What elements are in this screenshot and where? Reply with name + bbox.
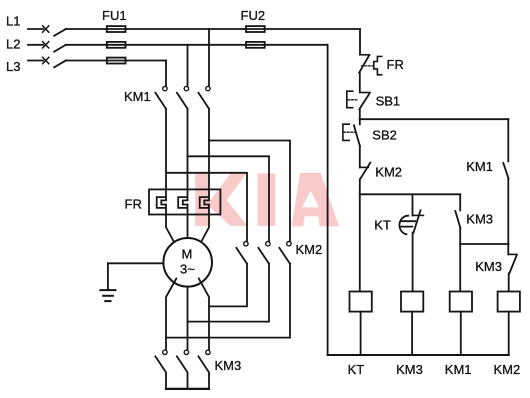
wire SB2 to KM2 contact xyxy=(359,146,361,167)
wire node to KT coil xyxy=(359,194,361,291)
fuse FU2 pole 1 xyxy=(246,26,265,32)
wire KM2 coil to bus xyxy=(508,312,510,355)
wire KM3 NO to KM2 coil xyxy=(508,273,510,291)
switch QS pole L2 cross xyxy=(43,42,49,48)
contactor KM1 pole2 terminal xyxy=(184,86,188,90)
wire delta bottom V2 to KM2 poleB xyxy=(188,264,270,322)
timer contact KT blade xyxy=(414,210,421,232)
timer contact KT terminal jog xyxy=(413,214,424,216)
pushbutton SB1 cap xyxy=(347,91,353,108)
fuse FU1 pole 1 xyxy=(107,26,126,32)
svg-text:KM2: KM2 xyxy=(296,242,323,257)
contactor KM3 pole2 terminal xyxy=(184,350,188,354)
aux contact KM1 (NO) blade xyxy=(503,163,508,178)
watermark KIA xyxy=(195,173,339,227)
motor M 3~ xyxy=(163,238,212,287)
svg-text:KM3: KM3 xyxy=(215,358,242,373)
switch QS pole L2 blade xyxy=(54,45,66,52)
svg-text:KM3: KM3 xyxy=(396,362,423,377)
wire KM1 pole3 to FR xyxy=(208,109,210,190)
coil KM2 xyxy=(498,292,520,312)
contactor KM3 pole3 terminal xyxy=(206,350,210,354)
svg-text:M: M xyxy=(182,247,193,262)
wire L1 bus xyxy=(66,28,360,30)
fuse FU1 pole 2 xyxy=(107,42,126,48)
svg-text:KM3: KM3 xyxy=(466,212,493,227)
pushbutton SB1 (NC) blade xyxy=(359,93,370,109)
wire L3 stub xyxy=(28,60,43,62)
contactor KM1 pole3 blade xyxy=(198,93,209,109)
thermal relay FR heater 2 xyxy=(178,189,187,214)
wire motor W2 lead xyxy=(199,279,209,351)
switch QS pole L3 cross xyxy=(43,57,49,63)
relay contact FR dashed link xyxy=(362,65,374,67)
wire FR to SB1 xyxy=(359,72,361,92)
svg-text:L2: L2 xyxy=(6,36,20,51)
wire link to KM3 NO contact xyxy=(507,244,509,254)
aux contact KM3 (NO) blade xyxy=(509,255,516,273)
coil KT xyxy=(350,292,372,312)
fuse FU2 pole 2 xyxy=(246,42,265,48)
svg-text:KT: KT xyxy=(348,362,365,377)
aux contact KM2 (NO) terminal jog xyxy=(360,166,369,168)
timer contact KT arc bar xyxy=(401,221,415,226)
relay contact FR (NC) top bar xyxy=(360,54,370,56)
wire FR to motor U1 xyxy=(166,215,176,247)
contactor KM3 pole3 blade xyxy=(198,356,209,388)
wire control hot drop xyxy=(359,29,361,54)
pushbutton SB2 cap xyxy=(343,124,349,140)
contactor KM2 poleC blade xyxy=(279,248,290,264)
switch QS pole L1 blade xyxy=(54,29,66,36)
svg-text:KM2: KM2 xyxy=(375,165,402,180)
svg-text:L1: L1 xyxy=(6,14,20,29)
svg-text:SB2: SB2 xyxy=(372,128,397,143)
contactor KM2 poleB blade xyxy=(258,248,269,264)
fuse FU1 pole 3 xyxy=(107,58,126,64)
wire cross link xyxy=(460,243,508,245)
svg-text:FU1: FU1 xyxy=(102,8,127,23)
ground bar 3 xyxy=(105,300,110,302)
coil KM3 xyxy=(401,292,423,312)
wire L2 drop to KM1 pole2 xyxy=(187,45,189,87)
svg-text:L3: L3 xyxy=(6,59,20,74)
wire node to KM3 NC contact xyxy=(459,194,461,210)
svg-text:3~: 3~ xyxy=(180,262,195,277)
coil KM1 xyxy=(450,292,472,312)
contactor KM2 poleC terminal xyxy=(287,242,291,246)
wire L3 drop to KM1 pole1 xyxy=(165,61,167,87)
wire bottom bus xyxy=(328,354,509,356)
wire delta stub pole2 to KM2 poleB xyxy=(188,156,270,241)
wire motor V2 lead xyxy=(187,287,189,351)
aux contact KM2 (NO) blade xyxy=(360,163,370,180)
wire seal-in branch xyxy=(360,118,509,120)
ground bar 2 xyxy=(103,295,113,297)
svg-text:FR: FR xyxy=(387,57,404,72)
wire motor U2 lead xyxy=(166,279,176,351)
wire delta stub pole1 to KM2 poleA xyxy=(166,173,247,242)
switch QS pole L1 cross xyxy=(43,26,49,32)
wire node to KT contact xyxy=(412,194,414,215)
wire KT coil to bus xyxy=(360,312,362,355)
wire KM3 coil to bus xyxy=(411,312,413,355)
wire KM1 pole1 to FR xyxy=(165,109,167,190)
svg-text:SB1: SB1 xyxy=(376,94,401,109)
wire SB1 to node xyxy=(359,109,361,119)
contactor KM1 pole1 blade xyxy=(155,93,166,109)
wire KM1 contact down xyxy=(507,178,509,244)
svg-text:FR: FR xyxy=(125,197,142,212)
aux contact KM3 (NO) terminal jog xyxy=(508,253,517,255)
pushbutton SB2 dashed link xyxy=(344,131,355,133)
relay contact FR (NC) blade xyxy=(359,55,369,72)
svg-text:FU2: FU2 xyxy=(241,8,266,23)
wire KT contact to KM3 coil xyxy=(412,233,414,292)
wire node distribution line xyxy=(360,193,460,195)
wire delta bottom U2 to KM2 poleC xyxy=(166,264,290,338)
wire L1 drop to KM1 pole3 xyxy=(208,29,210,86)
thermal relay FR box xyxy=(149,189,220,214)
wire delta bottom W2 to KM2 poleA xyxy=(209,264,247,307)
svg-text:KT: KT xyxy=(374,218,391,233)
svg-text:KM3: KM3 xyxy=(475,259,502,274)
relay contact FR thermal element xyxy=(374,56,382,74)
pushbutton SB1 dashed link xyxy=(348,99,358,101)
wire KM1 pole2 to FR xyxy=(187,109,189,190)
ground bar 1 xyxy=(100,289,115,291)
wire L2 bus xyxy=(66,44,328,46)
thermal relay FR heater 3 xyxy=(200,189,209,214)
thermal relay FR heater 1 xyxy=(157,189,166,214)
contactor KM2 poleA terminal xyxy=(244,242,248,246)
switch QS pole L3 blade xyxy=(54,61,66,68)
aux contact KM3 (NC) blade xyxy=(455,211,460,228)
timer contact KT delay arc xyxy=(399,216,408,235)
star point bus xyxy=(166,388,209,390)
pushbutton SB1 (NC) top bar xyxy=(360,92,370,94)
contactor KM2 poleA blade xyxy=(236,248,247,264)
svg-text:KM1: KM1 xyxy=(466,159,493,174)
wire motor frame to earth xyxy=(108,262,164,264)
wire FR to motor V1 xyxy=(187,215,189,239)
contactor KM1 pole3 terminal xyxy=(206,86,210,90)
contactor KM1 pole1 terminal xyxy=(163,86,167,90)
contactor KM2 poleB terminal xyxy=(266,242,270,246)
wire KM1 coil to bus xyxy=(460,312,462,355)
wire delta stub pole3 to KM2 poleC xyxy=(209,141,290,242)
wire FR to motor W1 xyxy=(199,215,209,247)
contactor KM3 pole1 blade xyxy=(155,356,166,388)
wire KM2 contact to node line xyxy=(359,179,361,194)
wire L2 stub xyxy=(28,44,43,46)
contactor KM1 pole2 blade xyxy=(177,93,188,109)
pushbutton SB2 (NO) blade xyxy=(354,119,360,146)
wire L1 stub xyxy=(28,28,43,30)
svg-text:KM1: KM1 xyxy=(445,362,472,377)
contactor KM3 pole2 blade xyxy=(177,356,188,388)
svg-text:KM2: KM2 xyxy=(494,362,521,377)
ground stem xyxy=(107,263,109,289)
svg-text:KM1: KM1 xyxy=(124,89,151,104)
wire neutral rail xyxy=(327,45,329,355)
wire L3 bus xyxy=(66,60,166,62)
wire seal drop to KM1 contact xyxy=(507,119,509,161)
contactor KM3 pole1 terminal xyxy=(163,350,167,354)
wire KM3 NC to KM1 coil xyxy=(459,228,461,292)
